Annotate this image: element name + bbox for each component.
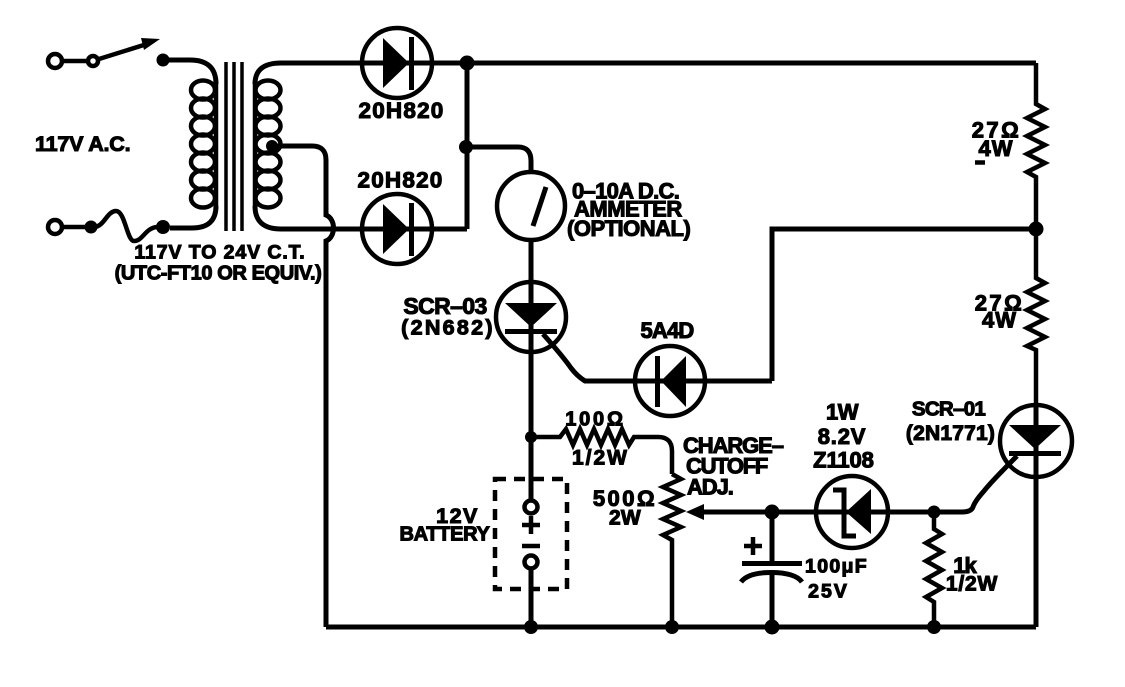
ammeter M1 xyxy=(497,172,565,240)
switch contact node xyxy=(157,54,170,67)
wire SCR-01 column xyxy=(1034,405,1039,627)
svg-text:1W: 1W xyxy=(826,400,859,425)
wire positive rail (secondary top through D1 to right corner) xyxy=(255,63,1036,84)
svg-text:(2N682): (2N682) xyxy=(401,316,495,340)
bottom rail wire xyxy=(326,625,1036,630)
fuse F1 node left xyxy=(85,221,98,234)
wiper arrow xyxy=(700,510,772,515)
svg-text:Z1108: Z1108 xyxy=(813,448,874,473)
diode D3 5A4D xyxy=(635,346,705,416)
wire xyxy=(63,59,87,64)
SCR U2 SCR-01 xyxy=(1000,405,1072,477)
svg-text:5A4D: 5A4D xyxy=(640,318,693,343)
junction nodes bottom rail xyxy=(524,620,538,634)
svg-text:4W: 4W xyxy=(979,136,1014,161)
svg-text:(UTC-FT10 OR EQUIV.): (UTC-FT10 OR EQUIV.) xyxy=(115,263,322,285)
junction node divider xyxy=(1029,222,1044,237)
svg-text:2W: 2W xyxy=(609,507,641,530)
wire center tap down to bottom rail with hop xyxy=(272,146,334,627)
wire xyxy=(63,225,85,230)
wire gate SCR-01 xyxy=(934,456,1017,512)
wire secondary bottom through D2 xyxy=(255,206,467,229)
junction node xyxy=(927,620,941,634)
svg-text:SCR–01: SCR–01 xyxy=(912,398,986,421)
svg-text:8.2V: 8.2V xyxy=(818,424,866,449)
junction node cap xyxy=(765,505,780,520)
svg-text:(2N1771): (2N1771) xyxy=(906,422,995,445)
capacitor C1 100uF 25V xyxy=(770,512,775,561)
svg-text:100μF: 100μF xyxy=(805,556,868,578)
transformer T1 secondary winding xyxy=(255,81,281,208)
fuse F1 node right xyxy=(156,220,170,234)
resistor R2 27ohm 4W bottom xyxy=(1027,229,1045,405)
wire rectifier output vertical xyxy=(465,63,470,229)
transformer core xyxy=(226,62,242,231)
AC input terminal top xyxy=(48,54,62,68)
wire to ammeter xyxy=(466,147,531,172)
svg-text:BATTERY: BATTERY xyxy=(399,524,490,546)
AC input terminal bottom xyxy=(48,220,62,234)
wire D3 up to divider node xyxy=(772,229,1036,381)
stray mark under 4W label xyxy=(975,160,985,165)
svg-text:117V A.C.: 117V A.C. xyxy=(35,132,130,156)
wire to primary xyxy=(163,60,216,84)
junction node rectifier output xyxy=(460,56,475,71)
diode D2 20H820 xyxy=(362,194,432,264)
potentiometer R3 500ohm 2W xyxy=(663,474,681,627)
wire primary bottom to fuse xyxy=(170,206,216,228)
svg-text:ADJ.: ADJ. xyxy=(687,475,733,500)
diode D1 20H820 xyxy=(362,28,432,98)
svg-text:1/2W: 1/2W xyxy=(946,573,998,596)
zener diode D4 Z1108 xyxy=(816,476,888,548)
wire zener row xyxy=(772,510,934,515)
svg-text:4W: 4W xyxy=(982,308,1017,333)
junction node ammeter tap xyxy=(459,140,473,154)
transformer T1 primary winding xyxy=(191,81,216,208)
switch S1 arm xyxy=(99,44,147,59)
SCR U1 SCR-03 xyxy=(496,282,566,352)
resistor R1 27ohm 4W top xyxy=(1027,63,1045,229)
switch S1 pivot xyxy=(88,56,98,66)
svg-text:100Ω: 100Ω xyxy=(565,409,626,431)
wire ammeter to SCR-03 to 100ohm node xyxy=(529,240,534,437)
svg-text:(OPTIONAL): (OPTIONAL) xyxy=(567,216,690,241)
svg-text:1/2W: 1/2W xyxy=(572,447,629,470)
svg-text:117V TO 24V C.T.: 117V TO 24V C.T. xyxy=(134,242,305,264)
battery B1 12V xyxy=(495,479,567,589)
svg-text:20H820: 20H820 xyxy=(358,98,444,123)
resistor R4 1k 1/2W xyxy=(926,512,942,627)
svg-text:25V: 25V xyxy=(808,581,849,603)
center tap node xyxy=(266,140,278,152)
junction node gate divider xyxy=(928,506,941,519)
resistor R5 100ohm 1/2W xyxy=(525,431,537,443)
svg-text:20H820: 20H820 xyxy=(357,168,443,193)
wire gate SCR-03 to D3 xyxy=(543,334,772,381)
fuse F1 xyxy=(94,211,157,241)
